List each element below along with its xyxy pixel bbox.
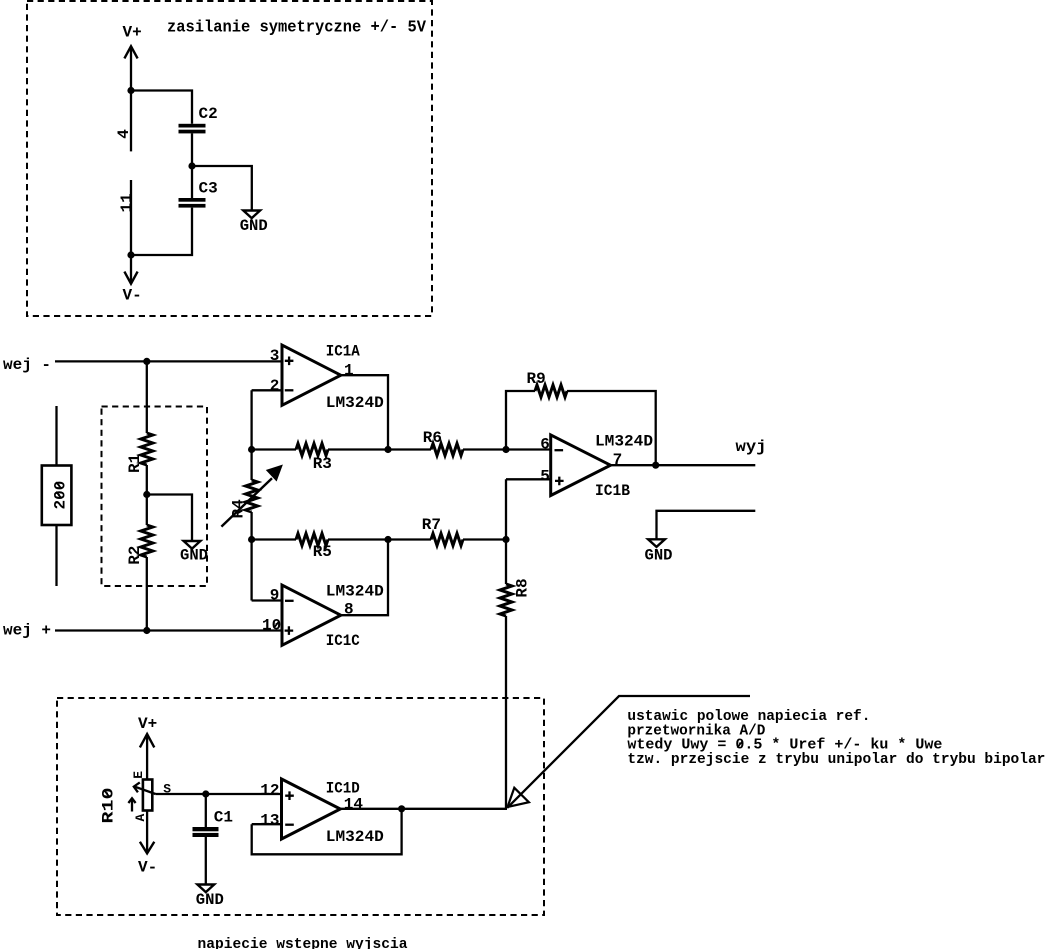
pin 11 (IC1 power) bbox=[130, 180, 132, 255]
op-amp IC1B bbox=[551, 435, 611, 496]
ground (R1/R2 box) bbox=[184, 541, 201, 549]
svg-text:GND: GND bbox=[240, 217, 268, 235]
svg-text:V-: V- bbox=[138, 859, 157, 877]
node: R5 left bbox=[248, 536, 255, 543]
svg-text:R8: R8 bbox=[514, 578, 532, 597]
svg-text:GND: GND bbox=[180, 546, 208, 564]
wire: R1 to node bbox=[146, 465, 148, 525]
resistor R5 bbox=[296, 534, 328, 546]
resistor R2 bbox=[141, 525, 153, 557]
svg-text:200: 200 bbox=[51, 481, 69, 510]
svg-text:14: 14 bbox=[344, 795, 364, 813]
svg-text:IC1A: IC1A bbox=[326, 342, 360, 360]
R4 wiper arrow bbox=[221, 478, 272, 526]
svg-text:10: 10 bbox=[262, 617, 281, 635]
trimmer R10 bbox=[143, 780, 152, 811]
wire: R2 to wej+ bbox=[146, 557, 148, 631]
resistor R6 bbox=[431, 444, 463, 456]
IC1A + input mark bbox=[285, 357, 294, 366]
ground (top box) bbox=[243, 211, 260, 219]
wire: wej- input to IC1A pin 3 bbox=[55, 360, 282, 362]
pin 4 (IC1 power) bbox=[130, 91, 132, 152]
svg-text:R3: R3 bbox=[313, 455, 332, 473]
wire: wej- down to R1 bbox=[146, 361, 148, 433]
wire C2 bottom to mid node bbox=[191, 133, 193, 166]
wire: R9 feedback loop bbox=[506, 391, 656, 465]
IC1C + input mark bbox=[285, 626, 294, 635]
svg-text:LM324D: LM324D bbox=[595, 432, 653, 450]
svg-text:wyj: wyj bbox=[736, 438, 767, 456]
dashed frame: power supply box bbox=[27, 1, 432, 316]
resistor 200 (value box, left annotation) bbox=[55, 406, 57, 586]
node: feedback tap on output bbox=[398, 805, 405, 812]
capacitor C2 bbox=[179, 124, 206, 128]
dashed frame: R1/R2 divider box bbox=[102, 407, 208, 587]
wire: R4 to R5 row bbox=[252, 512, 282, 601]
wire: R3 row bbox=[252, 448, 506, 450]
op-amp IC1D bbox=[282, 779, 341, 839]
svg-text:C1: C1 bbox=[214, 808, 233, 826]
svg-text:tzw. przejscie z trybu unipola: tzw. przejscie z trybu unipolar do trybu… bbox=[627, 752, 1045, 768]
IC1A - input mark bbox=[285, 389, 294, 391]
svg-text:R10: R10 bbox=[99, 788, 117, 824]
wire: C1 to GND bbox=[205, 837, 207, 885]
svg-text:7: 7 bbox=[613, 451, 623, 469]
wire: IC1A pin 2 bbox=[252, 389, 282, 391]
node: V- junction bbox=[127, 251, 134, 258]
svg-text:R7: R7 bbox=[422, 516, 441, 534]
node: R7/R8/pin5 junction bbox=[502, 536, 509, 543]
svg-text:5: 5 bbox=[540, 467, 550, 485]
ground (output) bbox=[648, 539, 665, 547]
svg-text:1: 1 bbox=[344, 362, 354, 380]
svg-text:6: 6 bbox=[540, 435, 550, 453]
svg-text:R5: R5 bbox=[313, 543, 332, 561]
node: C2/C3 midpoint bbox=[188, 162, 195, 169]
svg-text:wej -: wej - bbox=[3, 356, 51, 374]
capacitor C3 bbox=[179, 198, 206, 202]
svg-text:C3: C3 bbox=[199, 180, 218, 198]
node: R1/R2 midpoint bbox=[143, 491, 150, 498]
svg-text:11: 11 bbox=[118, 193, 136, 212]
wire: IC1C output pin 8 up to R5/R7 junction bbox=[341, 540, 388, 616]
wire: IC1D pin 13 feedback loop bbox=[252, 809, 402, 855]
svg-text:wej +: wej + bbox=[3, 622, 51, 640]
svg-text:2: 2 bbox=[270, 377, 280, 395]
wire mid node to GND bbox=[192, 166, 252, 211]
node: wej+ / R2 tap bbox=[143, 627, 150, 634]
resistor R9 bbox=[535, 385, 567, 397]
IC1B - input mark bbox=[555, 449, 564, 451]
svg-text:IC1C: IC1C bbox=[326, 632, 360, 650]
svg-text:IC1B: IC1B bbox=[595, 482, 630, 500]
leader line to note bbox=[507, 696, 750, 808]
svg-text:V+: V+ bbox=[123, 24, 142, 42]
svg-text:C2: C2 bbox=[199, 105, 218, 123]
IC1C - input mark bbox=[285, 600, 294, 602]
wire node to C2 top bbox=[131, 91, 192, 124]
wire: IC1B output pin 7 to wyj bbox=[611, 464, 756, 466]
wire: IC1D output pin 14 to R8 column bbox=[340, 808, 507, 810]
wire: output connector ground stub bbox=[657, 511, 756, 540]
node: wej- / R1 tap bbox=[143, 358, 150, 365]
svg-text:LM324D: LM324D bbox=[326, 828, 384, 846]
op-amp IC1C bbox=[282, 585, 341, 645]
svg-text:R2: R2 bbox=[126, 546, 144, 565]
node: R5/R7 junction bbox=[384, 536, 391, 543]
resistor R7 bbox=[431, 534, 463, 546]
wire: R8 down to IC1D output node bbox=[505, 616, 507, 809]
svg-text:E: E bbox=[131, 771, 146, 779]
wire mid node to C3 top bbox=[191, 166, 193, 198]
svg-text:V-: V- bbox=[123, 287, 142, 305]
wire: IC1A output pin 1 down to R3/R6 row bbox=[341, 375, 388, 449]
IC1D + input mark bbox=[285, 791, 294, 800]
svg-text:R1: R1 bbox=[126, 454, 144, 473]
wire: junction down to R8 bbox=[505, 540, 507, 585]
svg-text:3: 3 bbox=[270, 347, 280, 365]
wire: IC1B pin 5 and column to R7 bbox=[506, 479, 551, 539]
wire: wiper to IC1D pin 12 bbox=[156, 793, 282, 795]
R10 wiper arrow bbox=[134, 786, 156, 794]
svg-text:napiecie wstepne wyjscia: napiecie wstepne wyjscia bbox=[198, 937, 408, 949]
svg-text:A: A bbox=[133, 814, 148, 822]
resistor R3 bbox=[296, 444, 328, 456]
node: R6/R9/pin6 junction bbox=[502, 446, 509, 453]
svg-text:9: 9 bbox=[270, 586, 280, 604]
capacitor C1 bbox=[193, 827, 219, 831]
svg-text:R9: R9 bbox=[527, 370, 546, 388]
dashed frame: reference voltage box bbox=[57, 698, 544, 915]
wire: junction down to C1 bbox=[205, 794, 207, 827]
svg-text:LM324D: LM324D bbox=[326, 583, 384, 601]
R10 taper arrow bbox=[131, 799, 133, 812]
wire: pin2 column down to R3 bbox=[250, 390, 252, 480]
IC1B + input mark bbox=[555, 477, 564, 486]
wire: midpoint to GND bbox=[147, 495, 192, 542]
wire: R5 row bbox=[252, 538, 506, 540]
wire C3 bottom to V- node bbox=[131, 208, 192, 255]
supply symbol V- (top box) bbox=[130, 255, 132, 284]
node: wiper/C1 junction bbox=[202, 790, 209, 797]
node: R3/R6 junction bbox=[384, 446, 391, 453]
potentiometer R4 bbox=[246, 480, 258, 512]
op-amp IC1A bbox=[282, 345, 341, 405]
resistor R8 bbox=[500, 584, 512, 616]
leader arrowhead bbox=[508, 788, 529, 807]
svg-text:zasilanie symetryczne +/- 5V: zasilanie symetryczne +/- 5V bbox=[167, 19, 427, 38]
svg-text:GND: GND bbox=[645, 547, 673, 565]
svg-text:13: 13 bbox=[260, 811, 279, 829]
resistor R1 bbox=[141, 433, 153, 465]
wire V+ to node bbox=[130, 46, 132, 90]
svg-text:R6: R6 bbox=[423, 429, 442, 447]
node: V+ junction bbox=[127, 87, 134, 94]
supply symbol V- (bottom box) bbox=[146, 811, 148, 854]
ground (C1) bbox=[197, 885, 214, 893]
node: R3 left bbox=[248, 446, 255, 453]
node: output junction bbox=[652, 462, 659, 469]
svg-text:12: 12 bbox=[260, 781, 279, 799]
svg-text:GND: GND bbox=[196, 891, 224, 909]
svg-text:4: 4 bbox=[115, 129, 133, 139]
svg-text:V+: V+ bbox=[138, 715, 157, 733]
svg-text:LM324D: LM324D bbox=[326, 394, 384, 412]
wire: wej+ input to IC1C pin 10 bbox=[55, 629, 282, 631]
IC1D - input mark bbox=[285, 824, 294, 826]
wire: IC1B pin 6 bbox=[506, 448, 551, 450]
